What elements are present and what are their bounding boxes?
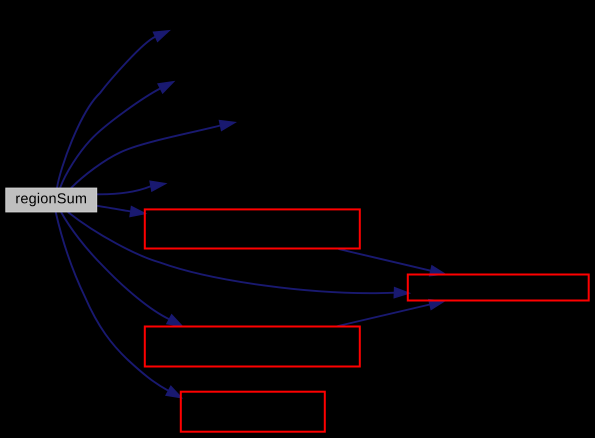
wire regionSum->node3 <box>71 126 220 189</box>
node boxC (truncated, red) <box>145 327 360 367</box>
wire regionSum->node2 <box>60 89 160 189</box>
node regionSum <box>6 188 97 212</box>
node boxD (truncated, red) <box>181 392 325 432</box>
wire regionSum->boxD <box>56 212 169 391</box>
wire regionSum->node1 <box>57 37 155 188</box>
wire boxA->boxB <box>339 249 431 271</box>
wire regionSum->node4 <box>97 186 151 194</box>
wire regionSum->boxC <box>61 212 169 319</box>
wire regionSum->boxB <box>68 212 394 293</box>
node boxA (truncated, red) <box>145 209 360 248</box>
node boxB (truncated, red) <box>408 275 589 301</box>
wire regionSum->boxA <box>97 206 131 212</box>
wire boxC->boxB <box>336 305 430 327</box>
